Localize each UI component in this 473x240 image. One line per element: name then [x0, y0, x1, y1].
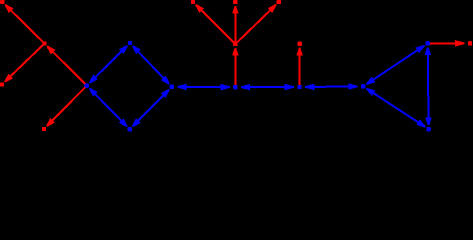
edge Q--TL (bidirectional blue)	[305, 83, 358, 90]
edge R1->T3 (red directed)	[235, 4, 276, 44]
edge R--Bo (bidirectional blue)	[132, 89, 170, 127]
edge L--T (bidirectional blue)	[89, 45, 128, 83]
node T2 (red)	[233, 0, 237, 4]
node TT (blue)	[426, 41, 430, 45]
node TL (blue)	[361, 84, 365, 88]
node R1 (red)	[233, 42, 237, 46]
node TB (blue)	[426, 127, 430, 131]
edge R--P (bidirectional blue)	[177, 84, 230, 91]
node T3 (red)	[277, 0, 281, 4]
edge A->C (red directed)	[4, 44, 44, 83]
edge TL--TT (bidirectional blue)	[366, 45, 425, 85]
node C (red)	[0, 82, 4, 86]
edge TL--TB (bidirectional blue)	[366, 88, 426, 128]
node R2 (red)	[298, 42, 302, 46]
edge L->D (red directed)	[46, 86, 87, 127]
node T1 (red)	[191, 0, 195, 4]
edge A->B (red directed)	[5, 4, 45, 43]
node A (red)	[42, 41, 46, 45]
edge TT--TB (bidirectional blue)	[425, 47, 432, 125]
edge P--Q (bidirectional blue)	[241, 84, 294, 91]
node Q (blue)	[297, 85, 301, 89]
node L (blue)	[85, 83, 89, 87]
edge R1->T2 (red directed)	[232, 6, 239, 44]
node E (red)	[468, 41, 472, 45]
edge Q->R2 (red directed)	[296, 48, 303, 87]
edge TT->E (red directed)	[428, 40, 465, 47]
edge P->R1 (red directed)	[232, 48, 239, 87]
node Bo (blue)	[128, 127, 132, 131]
edge Bo--L (bidirectional blue)	[89, 88, 128, 127]
node R (blue)	[170, 85, 174, 89]
edge T--R (bidirectional blue)	[132, 45, 170, 84]
node D (red)	[42, 127, 46, 131]
node T (blue)	[128, 41, 132, 45]
node P (blue)	[233, 85, 237, 89]
edge L->A (red directed)	[47, 46, 87, 86]
node B (red)	[0, 0, 4, 4]
edge R1->T1 (red directed)	[195, 4, 235, 44]
